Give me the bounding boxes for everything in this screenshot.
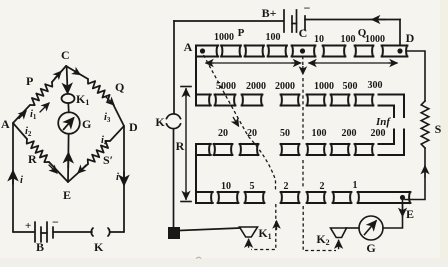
key K1 funnel: [240, 227, 258, 237]
R range dimension line: [181, 86, 191, 88]
wire G to key K2: [346, 227, 359, 229]
svg-text:−: −: [304, 1, 311, 15]
svg-text:2000: 2000: [246, 81, 266, 92]
wire E corner down with arrow: [383, 198, 403, 229]
svg-text:i: i: [116, 172, 119, 183]
arrow on dashed C lead top: [302, 66, 304, 74]
row2 left end block: [196, 95, 211, 106]
svg-text:5000: 5000: [216, 81, 236, 92]
svg-text:K: K: [155, 115, 165, 129]
resistance coil row3 (200b): [355, 144, 374, 155]
svg-text:1000: 1000: [365, 34, 385, 45]
battery plate short 1: [291, 16, 293, 32]
arrow span P (under row1 left): [206, 62, 213, 64]
resistance coil row3 (20): [214, 144, 233, 155]
resistance coil row2 (1000): [307, 95, 326, 106]
resistance coil row4 (10): [218, 192, 239, 203]
resistance coil row4 (2): [281, 192, 300, 203]
current arrow i down (right wire): [123, 172, 125, 185]
svg-text:300: 300: [368, 80, 383, 91]
resistance coil row1 (gap 100 Q): [355, 46, 374, 57]
svg-text:C: C: [61, 48, 70, 62]
svg-text:D: D: [129, 120, 138, 134]
bottom wire right of key: [110, 231, 124, 233]
svg-text:D: D: [406, 31, 415, 45]
svg-text:10: 10: [314, 34, 324, 45]
svg-text:E: E: [406, 207, 414, 221]
battery plate long 2: [296, 10, 298, 32]
svg-text:G: G: [82, 117, 91, 131]
resistor S': [88, 141, 110, 164]
node dot C: [300, 48, 305, 53]
faint scan speck: [196, 257, 201, 258]
up arrow on S wire: [424, 166, 426, 177]
svg-text:2: 2: [284, 181, 289, 192]
bracket row3 to row4 connector: [195, 144, 197, 203]
wire S' to E: [68, 164, 88, 182]
resistance coil row2 (300): [355, 95, 374, 106]
svg-text:50: 50: [280, 128, 290, 139]
svg-text:A: A: [1, 117, 10, 131]
resistance coil row2 (2000): [242, 95, 263, 106]
arrow after P: [40, 103, 49, 112]
resistor S: [421, 101, 429, 148]
wire D to S': [110, 126, 124, 141]
wire D block to S: [407, 51, 425, 101]
svg-text:200: 200: [371, 128, 386, 139]
resistance coil row3 (50): [281, 144, 300, 155]
arrow on dashed A lead: [276, 221, 278, 230]
wire D down right side: [123, 126, 125, 232]
resistance coil row3 (200): [331, 144, 350, 155]
svg-text:G: G: [366, 241, 375, 255]
bracket terminal A (row1 to row2 connector): [195, 46, 197, 106]
arrow up into K1: [248, 240, 250, 248]
up arrow on E-G wire: [67, 153, 69, 168]
svg-text:2000: 2000: [275, 81, 295, 92]
resistor P: [30, 82, 52, 105]
battery inter-cell link: [292, 23, 297, 25]
resistance coil row3 (100): [307, 144, 326, 155]
node dot E corner: [400, 195, 405, 200]
resistance coil row4 (2b): [307, 192, 326, 203]
svg-text:B+: B+: [262, 6, 277, 20]
terminal square: [168, 227, 180, 239]
battery B plates: [34, 222, 36, 242]
wire R to E: [49, 162, 68, 182]
galvanometer G needle: [64, 118, 74, 130]
arrow up into K2: [338, 241, 340, 249]
resistance block row1 terminal C: [292, 46, 316, 57]
svg-text:A: A: [184, 40, 193, 54]
svg-text:1000: 1000: [314, 81, 334, 92]
svg-text:100: 100: [341, 34, 356, 45]
svg-text:100: 100: [312, 128, 327, 139]
svg-text:E: E: [63, 188, 71, 202]
svg-text:B: B: [36, 240, 44, 254]
row3 left end block: [196, 144, 211, 155]
svg-text:100: 100: [266, 32, 281, 43]
arrow P to C: [55, 72, 61, 79]
wire A to P: [13, 105, 30, 123]
svg-text:1000: 1000: [214, 32, 234, 43]
resistance coil row4 (5): [245, 192, 265, 203]
wire E to G: [67, 135, 70, 183]
wire C to K1 with down arrow: [67, 66, 68, 93]
key K1 plug: [62, 94, 75, 103]
wire S down to row4 E corner: [405, 148, 425, 200]
key K plug: [167, 114, 181, 119]
resistor Q: [88, 79, 112, 102]
node dot A: [200, 48, 205, 53]
svg-text:1: 1: [353, 180, 358, 191]
wire corner down to D block: [399, 20, 401, 46]
arrow Q to D: [106, 97, 114, 105]
key K2 funnel: [331, 228, 347, 238]
svg-text:C: C: [299, 26, 308, 40]
wire K1 to G: [67, 103, 70, 113]
galvanometer G needle (right): [365, 221, 377, 235]
node dot D: [397, 48, 402, 53]
svg-text:20: 20: [218, 128, 228, 139]
wire P to C: [52, 66, 66, 82]
bottom wire battery to key: [53, 231, 92, 233]
resistance coil row2 (2000b): [281, 95, 300, 106]
resistance coil row2 (500): [331, 95, 350, 106]
svg-text:K: K: [94, 240, 104, 254]
row3 right corner block (from Inf gap): [379, 130, 405, 156]
wire top left (battery + to corner): [174, 20, 283, 22]
resistance block row1 terminal D: [382, 46, 408, 57]
wire key K to battery square terminal: [173, 129, 175, 227]
current arrow i up (left wire): [12, 171, 14, 184]
row4 long end block to E: [358, 192, 411, 203]
arrow span Q (under row1 right): [309, 62, 316, 64]
resistance coil row1 (gap 1000): [221, 46, 241, 57]
svg-text:+: +: [25, 220, 31, 232]
resistance coil row4 (1): [333, 192, 352, 203]
svg-text:200: 200: [342, 128, 357, 139]
arrow R to E: [49, 165, 57, 173]
svg-text:S′: S′: [103, 153, 113, 167]
resistance coil row1 (gap 100): [245, 46, 264, 57]
galvanometer G circle: [58, 112, 80, 134]
svg-text:2: 2: [320, 181, 325, 192]
arrow on arm A-P: [19, 111, 26, 119]
battery plate short 2: [304, 16, 306, 30]
svg-text:P: P: [238, 27, 245, 39]
svg-text:Inf: Inf: [375, 116, 391, 128]
wire C to Q: [66, 66, 88, 79]
resistance coil row2 (5000): [215, 95, 236, 106]
battery plate long 1: [283, 10, 285, 32]
bottom wire left of battery: [13, 231, 34, 233]
row2 right corner block (to Inf gap): [379, 95, 405, 118]
svg-text:i: i: [20, 175, 23, 186]
resistance coil row1 (gap 10): [323, 46, 346, 57]
wire A down left side: [12, 123, 14, 232]
svg-text:R: R: [176, 139, 185, 153]
svg-text:5: 5: [250, 181, 255, 192]
wire square to key K1: [180, 228, 240, 231]
wire A to R: [13, 123, 27, 139]
svg-text:10: 10: [221, 181, 231, 192]
wire left vertical down to key K: [173, 21, 175, 113]
arrow S' to E: [78, 165, 86, 173]
resistance coil row1 P-C: [268, 46, 287, 57]
arrow C to Q: [72, 70, 80, 75]
svg-text:500: 500: [343, 81, 358, 92]
svg-text:R: R: [28, 152, 37, 166]
key K contact arcs: [91, 228, 93, 236]
row4 left end block: [196, 192, 213, 203]
svg-text:20: 20: [247, 128, 257, 139]
svg-text:−: −: [52, 215, 59, 229]
wire Q to D: [112, 102, 124, 126]
current arrow toward battery on top wire: [372, 19, 385, 21]
galvanometer G circle (right): [359, 216, 383, 240]
svg-text:S: S: [435, 122, 442, 136]
svg-text:P: P: [26, 74, 33, 88]
arrow on dashed A lead mid: [233, 117, 239, 126]
dashed lead from terminal C to K2: [302, 56, 304, 70]
resistance block row1 A-end: [196, 46, 218, 57]
resistance coil row3 (20b): [240, 144, 259, 155]
wire battery - to top right corner: [305, 19, 400, 21]
dashed lead from terminal A to K1: [204, 55, 276, 191]
svg-text:Q: Q: [115, 80, 124, 94]
resistor R: [27, 139, 49, 162]
